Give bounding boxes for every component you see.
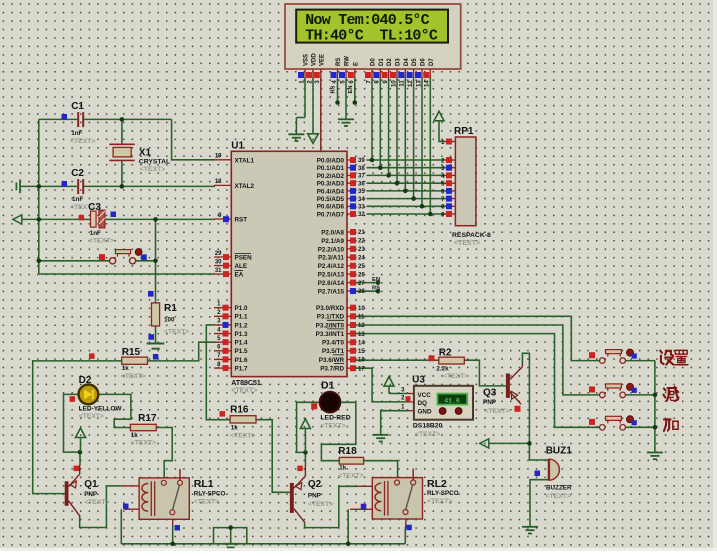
svg-text:GND: GND [418,409,432,416]
svg-text:1nF: 1nF [71,130,82,137]
svg-text:P1.7: P1.7 [235,365,248,372]
svg-text:U1: U1 [231,141,244,152]
svg-text:<TEXT>: <TEXT> [140,166,165,173]
svg-text:ALE: ALE [235,263,248,270]
svg-text:29: 29 [215,251,222,257]
svg-text:P1.3: P1.3 [235,331,248,338]
svg-text:LED-RED: LED-RED [320,415,350,422]
svg-text:<TEXT>: <TEXT> [454,240,480,247]
svg-text:35: 35 [358,189,365,195]
svg-text:12: 12 [358,323,365,329]
svg-text:VDD: VDD [312,53,318,66]
svg-text:21: 21 [358,230,365,236]
svg-text:P0.2/AD2: P0.2/AD2 [317,173,345,180]
svg-text:P0.0/AD0: P0.0/AD0 [317,157,345,164]
svg-text:<TEXT>: <TEXT> [230,432,255,439]
svg-text:RW: RW [345,56,351,66]
svg-text:<TEXT>: <TEXT> [164,329,189,336]
svg-text:C2: C2 [71,168,84,179]
svg-text:36: 36 [358,181,365,187]
svg-text:27: 27 [358,281,365,287]
svg-text:VEE: VEE [319,54,325,66]
svg-text:13: 13 [358,332,365,338]
svg-text:P2.2/A10: P2.2/A10 [318,246,345,253]
svg-text:P2.7/A15: P2.7/A15 [318,288,345,295]
svg-text:18: 18 [215,179,222,185]
svg-text:P1.5: P1.5 [235,348,248,355]
svg-text:<TEXT>: <TEXT> [231,387,257,394]
svg-text:P3.7/RD: P3.7/RD [320,366,344,373]
svg-text:PNP: PNP [483,399,496,406]
svg-text:RP1: RP1 [454,126,474,137]
svg-text:38: 38 [358,166,365,172]
svg-text:D3: D3 [396,58,402,66]
svg-text:BUZ1: BUZ1 [546,446,573,457]
svg-text:17: 17 [358,366,365,372]
svg-text:RLY-SPCO: RLY-SPCO [427,490,459,497]
svg-text:R2: R2 [439,347,452,358]
svg-text:<TEXT>: <TEXT> [89,238,114,245]
svg-text:CRYSTAL: CRYSTAL [139,158,170,165]
svg-text:14: 14 [358,340,365,346]
svg-text:<TEXT>: <TEXT> [121,373,146,380]
svg-text:<TEXT>: <TEXT> [338,473,363,480]
svg-text:DS18B20: DS18B20 [413,423,443,430]
svg-text:RLY-SPCO: RLY-SPCO [194,490,226,497]
svg-text:D6: D6 [421,58,427,66]
svg-text:Q2: Q2 [308,479,322,490]
svg-text:1k: 1k [122,365,130,372]
svg-text:P0.5/AD5: P0.5/AD5 [317,196,345,203]
svg-text:1k: 1k [131,432,139,439]
svg-text:<TEXT>: <TEXT> [443,373,468,380]
svg-text:R17: R17 [138,413,157,424]
svg-text:AT89C51: AT89C51 [231,380,261,387]
svg-text:P2.1/A9: P2.1/A9 [321,238,344,245]
svg-text:P2.0/A8: P2.0/A8 [321,229,344,236]
svg-text:<TEXT>: <TEXT> [415,431,440,438]
svg-text:15: 15 [358,349,365,355]
svg-text:R16: R16 [230,405,249,416]
svg-text:RST: RST [235,217,248,224]
svg-text:RESPACK-8: RESPACK-8 [452,232,491,239]
svg-text:RS: RS [331,85,337,93]
svg-text:Q3: Q3 [483,388,497,399]
svg-text:D7: D7 [429,58,435,66]
svg-text:14: 14 [425,80,431,87]
svg-text:11: 11 [358,315,365,321]
svg-text:Q1: Q1 [84,479,98,490]
svg-text:31: 31 [215,268,222,274]
svg-text:<TEXT>: <TEXT> [70,138,95,145]
svg-text:VCC: VCC [418,392,432,399]
svg-text:<TEXT>: <TEXT> [546,493,571,500]
svg-text:<TEXT>: <TEXT> [84,499,109,506]
svg-text:25: 25 [358,264,365,270]
svg-text:<TEXT>: <TEXT> [485,408,510,415]
svg-text:28: 28 [358,289,365,295]
svg-text:D1: D1 [379,58,385,66]
svg-text:XTAL2: XTAL2 [235,183,255,190]
svg-text:39: 39 [358,158,365,164]
svg-text:D5: D5 [412,58,418,66]
svg-text:P0.7/AD7: P0.7/AD7 [317,211,345,218]
svg-text:<TEXT>: <TEXT> [320,422,345,429]
svg-text:<TEXT>: <TEXT> [308,501,333,508]
svg-text:X1: X1 [139,148,152,159]
svg-text:D2: D2 [79,375,92,386]
svg-text:P2.4/A12: P2.4/A12 [318,263,345,270]
svg-text:P2.5/A13: P2.5/A13 [318,272,345,279]
svg-text:R1: R1 [164,303,177,314]
svg-text:VSS: VSS [304,54,310,66]
svg-text:26: 26 [358,272,365,278]
svg-text:D1: D1 [321,380,335,392]
svg-text:P0.3/AD3: P0.3/AD3 [317,181,345,188]
svg-text:E: E [353,62,359,66]
svg-text:11: 11 [400,80,406,87]
svg-text:P3.2/INT0: P3.2/INT0 [316,322,345,329]
svg-text:<TEXT>: <TEXT> [79,413,104,420]
svg-text:P3.1/TXD: P3.1/TXD [317,314,345,321]
svg-text:P1.2: P1.2 [235,322,248,329]
svg-text:P3.6/WR: P3.6/WR [319,357,345,364]
svg-text:PNP: PNP [308,493,321,500]
svg-text:23: 23 [358,247,365,253]
svg-text:RS: RS [336,58,342,66]
svg-text:13: 13 [416,80,422,87]
svg-text:2.2k: 2.2k [436,366,449,373]
svg-text:P3.4/T0: P3.4/T0 [322,340,345,347]
svg-text:1k: 1k [231,425,239,432]
svg-text:Now Tem:040.5°C: Now Tem:040.5°C [305,12,429,29]
svg-text:1k: 1k [339,465,347,472]
svg-text:EN: EN [372,277,380,283]
svg-text:RL2: RL2 [427,478,447,490]
svg-text:P1.4: P1.4 [235,340,248,347]
svg-text:<TEXT>: <TEXT> [131,440,156,447]
svg-text:19: 19 [215,154,222,160]
svg-text:BUZZER: BUZZER [546,485,572,492]
svg-text:P3.0/RXD: P3.0/RXD [316,305,344,312]
svg-text:EA: EA [235,272,244,279]
svg-text:1nF: 1nF [90,230,101,237]
svg-text:D0: D0 [371,58,377,66]
svg-text:R18: R18 [338,446,357,457]
svg-text:P2.6/A14: P2.6/A14 [318,280,345,287]
svg-text:P1.0: P1.0 [235,305,248,312]
svg-text:D4: D4 [404,58,410,66]
svg-text:32: 32 [358,212,365,218]
svg-text:34: 34 [358,197,365,203]
svg-text:XTAL1: XTAL1 [235,157,255,164]
svg-text:P2.3/A11: P2.3/A11 [318,255,344,262]
svg-text:30: 30 [215,259,222,265]
svg-text:<TEXT>: <TEXT> [427,498,452,505]
svg-text:C3: C3 [88,202,101,213]
svg-text:C1: C1 [71,101,84,112]
svg-text:P1.6: P1.6 [235,357,248,364]
svg-text:41.0: 41.0 [444,397,460,404]
svg-text:10: 10 [358,306,365,312]
svg-text:16: 16 [358,358,365,364]
svg-text:P1.1: P1.1 [235,314,248,321]
svg-text:P3.5/T1: P3.5/T1 [322,348,345,355]
svg-text:U3: U3 [412,375,425,386]
svg-text:RL1: RL1 [194,478,214,490]
svg-text:TH:40°C TL:10°C: TH:40°C TL:10°C [305,27,438,44]
svg-text:D2: D2 [387,58,393,66]
svg-text:DQ: DQ [418,400,428,407]
svg-text:1nF: 1nF [72,196,83,203]
svg-text:<TEXT>: <TEXT> [194,498,219,505]
svg-text:22: 22 [358,239,365,245]
svg-text:33: 33 [358,205,365,211]
svg-text:12: 12 [408,80,414,87]
svg-text:P0.4/AD4: P0.4/AD4 [317,188,345,195]
svg-text:R15: R15 [122,347,141,358]
svg-text:P3.3/INT1: P3.3/INT1 [316,331,345,338]
svg-text:PSEN: PSEN [235,255,253,262]
svg-text:P0.1/AD1: P0.1/AD1 [317,165,345,172]
svg-text:PNP: PNP [84,491,97,498]
svg-text:RS: RS [372,286,380,292]
svg-text:EN: EN [348,85,354,93]
svg-text:LED-YELLOW: LED-YELLOW [79,406,123,413]
svg-text:P0.6/AD6: P0.6/AD6 [317,204,345,211]
svg-text:37: 37 [358,174,365,180]
svg-text:100: 100 [164,317,175,324]
svg-text:10: 10 [391,80,397,87]
svg-text:24: 24 [358,255,365,261]
